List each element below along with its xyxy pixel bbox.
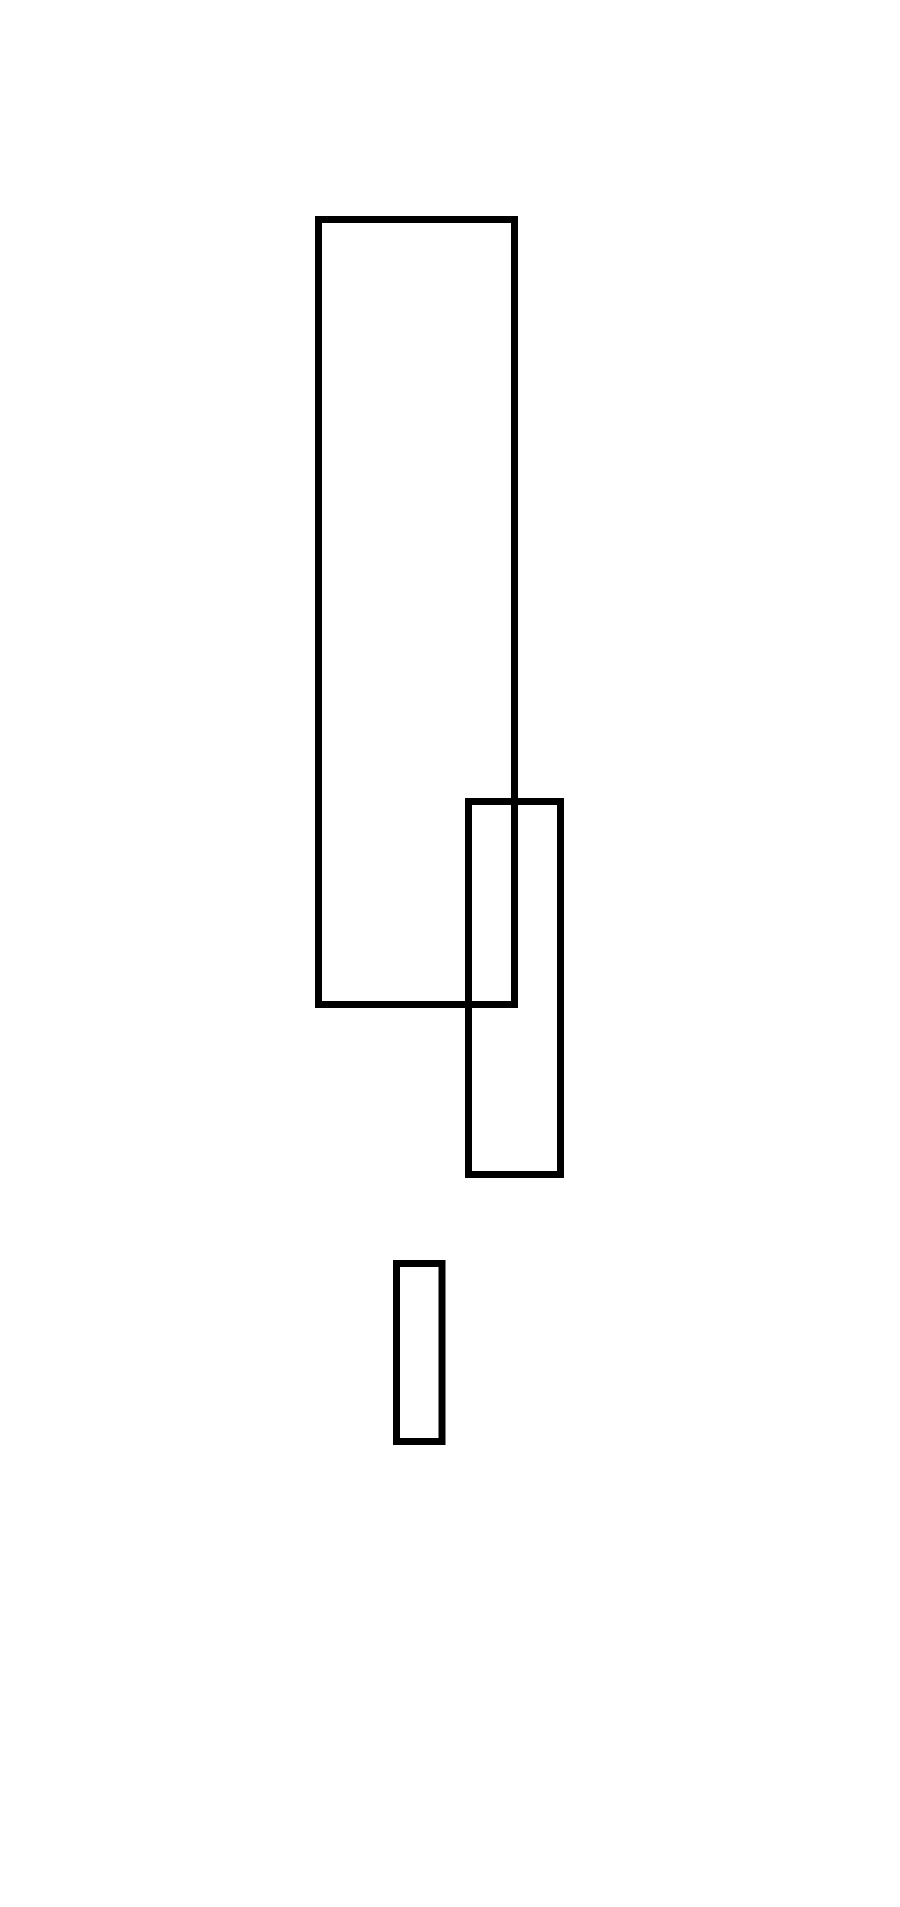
rectangle 1 (large tall rectangle) xyxy=(319,220,515,1005)
rectangle 2 (medium rectangle overlapping lower right of rectangle 1) xyxy=(469,802,561,1175)
rectangle 3 (small rectangle below) xyxy=(397,1264,443,1442)
